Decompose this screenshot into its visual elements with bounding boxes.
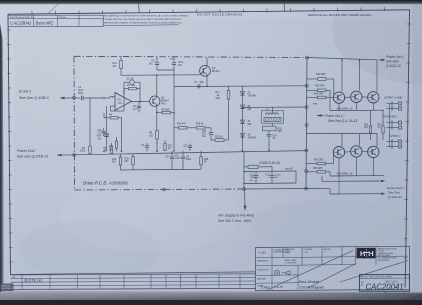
svg-text:+OK (OPA) + B: +OK (OPA) + B [336, 173, 353, 176]
resistor R8 [156, 112, 158, 130]
capacitor C15 electrolytic [255, 171, 257, 174]
svg-text:100u: 100u [186, 159, 192, 161]
svg-text:See Gen Q-4, 1A-13: See Gen Q-4, 1A-13 [328, 119, 357, 123]
wire mid vertical rail [173, 70, 175, 113]
edge connector node e [305, 149, 308, 152]
svg-text:± 1°: ± 1° [324, 252, 327, 254]
svg-text:PROJECTION: PROJECTION [257, 270, 269, 272]
svg-text:Power Out 1 /: Power Out 1 / [325, 114, 346, 118]
connector pair 3 [387, 141, 399, 143]
wire through network [272, 107, 274, 113]
svg-text:on/off: on/off [285, 167, 294, 171]
svg-text:8-9-78: 8-9-78 [274, 285, 283, 289]
annotation power out 1 top right [379, 59, 384, 62]
svg-text:1N414B: 1N414B [248, 95, 257, 97]
lower bus 2 with arrow [322, 180, 381, 182]
svg-text:IC1: IC1 [118, 98, 123, 102]
wire top distribution [121, 74, 200, 76]
svg-text:O/P SOCKET 1: O/P SOCKET 1 [383, 117, 400, 119]
svg-text:1k5: 1k5 [149, 134, 154, 137]
svg-text:R7 10k: R7 10k [127, 84, 136, 87]
svg-text:R9 6k8: R9 6k8 [162, 108, 171, 111]
svg-text:BC414: BC414 [212, 70, 220, 73]
svg-text:R12: R12 [168, 146, 173, 148]
svg-text:4n7: 4n7 [133, 108, 138, 111]
svg-text:C16: C16 [266, 175, 271, 177]
svg-text:4k7: 4k7 [112, 161, 117, 164]
HH address text [378, 247, 398, 261]
lower bus 1 [330, 175, 384, 177]
resistor R9 [157, 111, 162, 113]
svg-text:See Gen: See Gen [388, 191, 400, 195]
capacitor C6 [156, 57, 158, 63]
svg-text:THIS DRG No IS USED ON: THIS DRG No IS USED ON [10, 17, 34, 19]
diode Z3 [240, 92, 244, 96]
projection symbol [274, 270, 279, 275]
diode Z4 [240, 105, 244, 109]
svg-text:Power Out /: Power Out / [17, 149, 37, 153]
inductor L1 coil [266, 113, 269, 115]
svg-text:C15: C15 [250, 175, 255, 177]
edge connector node f [305, 170, 308, 173]
Drive PCB boundary dashed bottom rail [75, 189, 165, 192]
svg-text:447: 447 [113, 65, 118, 68]
Z1/Z2 limiter loop above op-amp [123, 82, 125, 95]
resistor R6 [110, 146, 113, 154]
capacitor C1 [76, 97, 81, 99]
HH logo [357, 248, 376, 258]
input node [73, 97, 76, 100]
resistor R15 [200, 157, 203, 165]
base link wires upper [345, 96, 351, 99]
svg-text:Z1 1M: Z1 1M [127, 78, 134, 81]
svg-text:R49 0R5: R49 0R5 [316, 73, 326, 76]
svg-text:CAC20041: CAC20041 [10, 21, 32, 26]
svg-text:30.8.78 J kc: 30.8.78 J kc [24, 279, 43, 283]
lower bus 3 with arrow [330, 193, 381, 195]
svg-text:R52 0R5: R52 0R5 [313, 167, 323, 170]
edge connector node c [305, 106, 308, 109]
svg-text:DIMENSIONS: DIMENSIONS [257, 261, 269, 263]
svg-text:A2: A2 [384, 291, 388, 295]
node at rail left end [73, 154, 76, 157]
resistor R1 [103, 97, 105, 99]
connector pair 2 [387, 122, 399, 124]
arrow to rail [57, 154, 74, 156]
svg-text:10n: 10n [149, 63, 154, 66]
capacitor C7 electrolytic [173, 57, 175, 62]
svg-text:4700u: 4700u [275, 175, 282, 177]
svg-text:FINISH - PAINT: FINISH - PAINT [285, 259, 297, 262]
resistor R24 wirewound hatched [264, 118, 281, 122]
base link wires lower [345, 151, 351, 154]
svg-text:OUTPUT 1+(A/B): OUTPUT 1+(A/B) [384, 97, 402, 100]
capacitor C16 electrolytic [271, 171, 273, 174]
svg-text:0R5: 0R5 [278, 131, 283, 133]
diode chain vertical wire [242, 86, 244, 151]
wire lower link [121, 169, 166, 172]
capacitor C12 electrolytic [210, 128, 212, 132]
svg-text:See Gen Q 4/1B-3: See Gen Q 4/1B-3 [19, 96, 49, 100]
resistor R14 [119, 157, 122, 165]
node on bottom boundary [163, 188, 166, 191]
connector pair 1 [387, 103, 399, 105]
output transistor Q7 [368, 92, 379, 103]
wire chassis bottom [244, 182, 296, 185]
svg-text:Q 4/1A-13: Q 4/1A-13 [386, 64, 401, 68]
L1 damping network box [262, 111, 284, 123]
svg-text:± .010: ± .010 [304, 252, 309, 254]
resistor R26 box [263, 126, 277, 131]
svg-text:DEV LONDON: DEV LONDON [1, 288, 13, 290]
svg-text:R48 0R5: R48 0R5 [314, 92, 324, 95]
output transistor Q8 [333, 147, 344, 158]
collector bus lower [307, 133, 377, 135]
resistor R16 [132, 157, 135, 165]
svg-text:Circuit Diagram: Circuit Diagram [300, 286, 325, 290]
svg-text:R50 0R5: R50 0R5 [315, 85, 325, 88]
svg-text:C10: C10 [97, 130, 102, 132]
drawing number box [360, 275, 410, 292]
Drive PCB boundary dashed left edge [73, 56, 76, 190]
resistor R12 [164, 144, 166, 151]
edge connector node d [305, 124, 308, 127]
svg-text:R20 4k: R20 4k [196, 124, 204, 126]
svg-text:R14 447: R14 447 [177, 124, 186, 126]
svg-text:± 1/64: ± 1/64 [285, 252, 290, 254]
svg-text:ITEM No: ITEM No [59, 17, 66, 19]
svg-text:Q-4/1A-13: Q-4/1A-13 [388, 195, 402, 199]
capacitor C3 [138, 102, 140, 106]
Drive PCB boundary dashed box top rail [74, 56, 307, 57]
wire chassis top [244, 170, 296, 173]
capacitor C8 electrolytic [170, 156, 174, 158]
svg-text:R51 0R5: R51 0R5 [314, 159, 324, 162]
edge connector node b [305, 84, 308, 87]
svg-text:68p: 68p [200, 81, 205, 84]
svg-text:741: 741 [118, 101, 123, 105]
svg-text:REMOVE ALL BURRS AND SHARP EDG: REMOVE ALL BURRS AND SHARP EDGES [308, 13, 372, 17]
wire op-amp output [132, 100, 150, 102]
collector bus upper [307, 58, 378, 60]
emitter drops lower [338, 158, 340, 176]
upper output bus [330, 109, 384, 111]
svg-text:See Gen Q-2/1B-13: See Gen Q-2/1B-13 [17, 154, 48, 158]
transistor Q1 [150, 96, 160, 106]
wire op-amp -input [111, 105, 116, 107]
bottom-left stamp block [1, 284, 14, 292]
capacitor C14 [267, 133, 271, 135]
strike diagonal 1 [267, 251, 353, 291]
resistor R7 feedback [124, 88, 129, 90]
svg-text:447: 447 [125, 160, 130, 163]
wire op-amp +input [104, 97, 110, 99]
diode Z6 [240, 134, 244, 138]
svg-text:Bass Module: Bass Module [299, 280, 320, 284]
revision table [10, 274, 255, 289]
wire Q1 collector [156, 75, 158, 97]
svg-text:FRACTIONS: FRACTIONS [285, 248, 296, 251]
capacitor C4 [145, 145, 149, 147]
svg-text:COLOUR SPEC: COLOUR SPEC [285, 262, 298, 264]
svg-text:5w6: 5w6 [216, 97, 221, 100]
svg-text:Heavy Duty /: Heavy Duty / [387, 186, 405, 190]
resistor R10 [156, 142, 158, 144]
wire bias rail [174, 85, 307, 88]
node on bottom boundary 2 [243, 188, 246, 191]
strike diagonal 3 [340, 261, 408, 283]
wire Q2 emitter down [206, 74, 208, 86]
resistor R10b [156, 142, 158, 144]
svg-text:See Gen: See Gen [386, 60, 399, 64]
svg-text:100v: 100v [175, 158, 181, 160]
edge connector node a [305, 56, 308, 59]
svg-text:CAC20041: CAC20041 [366, 282, 404, 291]
svg-text:THE WRITTEN CONSENT OF BRITISH: THE WRITTEN CONSENT OF BRITISH MUSIC (CO… [104, 23, 183, 25]
strike diagonal 2 [308, 264, 356, 289]
capacitor C5 [197, 84, 199, 88]
output transistor Q10 [368, 146, 379, 157]
resistor R21 [211, 139, 215, 141]
transistor Q2 [200, 65, 211, 76]
input wire with arrowhead [60, 97, 74, 99]
svg-text:250v: 250v [78, 92, 84, 95]
svg-text:100k: 100k [80, 151, 86, 153]
resistor R5 [109, 138, 111, 140]
output transistor Q9 [351, 146, 362, 157]
svg-text:R15: R15 [204, 159, 209, 161]
svg-text:-: - [112, 105, 113, 109]
svg-text:C10: C10 [202, 131, 207, 133]
wire Q2 base [200, 71, 203, 75]
diode Z5 [240, 120, 244, 124]
resistor R28 fuse box [248, 165, 258, 168]
svg-text:+OK (OPA) + B: +OK (OPA) + B [336, 107, 353, 110]
svg-text:OUTPUT 2: OUTPUT 2 [389, 136, 401, 138]
svg-text:1N414B: 1N414B [248, 137, 257, 139]
connector feed vertical [389, 104, 391, 147]
svg-text:A43: A43 [161, 103, 166, 106]
svg-text:TELEX 817682: TELEX 817682 [378, 260, 390, 262]
svg-text:MATERIAL: MATERIAL [257, 277, 266, 280]
capacitor C11 pair [188, 145, 192, 147]
title block cell texts [257, 248, 331, 288]
bottom rail continues to right rail [244, 188, 307, 191]
wire Q2 collector to top rail [206, 57, 208, 67]
edge connector node g [305, 187, 308, 190]
capacitor C9 electrolytic [181, 156, 185, 158]
annotation power out mid [317, 114, 322, 117]
wire Q1 emitter [156, 105, 158, 113]
emitter drop wires upper [338, 103, 340, 110]
svg-text:B Out 1: B Out 1 [19, 90, 31, 94]
output transistor Q5 [333, 92, 344, 103]
top-left drawing-number table [8, 15, 103, 26]
svg-text:LTD AND MUST NOT BE COPIED OR: LTD AND MUST NOT BE COPIED OR DISCLOSED … [104, 18, 182, 21]
resistor R11 [120, 56, 122, 60]
svg-text:CHAS-S.W 2A: CHAS-S.W 2A [259, 161, 280, 165]
svg-text:R21 56: R21 56 [215, 137, 223, 139]
title block outer [256, 246, 410, 290]
title block grid [256, 246, 409, 290]
capacitor C10 [101, 130, 105, 132]
op-amp IC1 741 [115, 93, 132, 111]
svg-text:Bass M/C: Bass M/C [36, 20, 55, 25]
svg-text:THIS MATERIAL IS THE PROPERTY: THIS MATERIAL IS THE PROPERTY OF BRITISH… [104, 15, 189, 18]
output transistor Q6 [351, 91, 362, 102]
PCB edge connector rail [306, 58, 307, 189]
svg-text:Power Out 1: Power Out 1 [386, 55, 404, 59]
svg-text:DO NOT SCALE DRAWING: DO NOT SCALE DRAWING [197, 13, 243, 17]
wire to output network [243, 106, 262, 108]
svg-text:No: No [361, 284, 363, 286]
capacitor C2 electrolytic [121, 118, 123, 152]
40V supply annotation arrow [244, 189, 247, 206]
svg-text:± .020: ± .020 [259, 251, 267, 255]
bottom internal 0V rail [74, 151, 307, 155]
